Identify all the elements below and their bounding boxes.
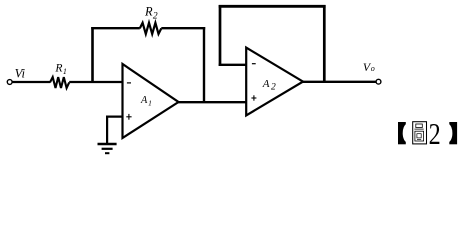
resistor R2	[140, 23, 162, 34]
op-amp A2	[246, 48, 303, 116]
caption left black lenticular bracket	[398, 122, 412, 144]
svg-text:Vi: Vi	[15, 66, 26, 80]
svg-text:R: R	[144, 4, 153, 18]
svg-text:1: 1	[148, 99, 152, 108]
svg-text:2: 2	[271, 82, 276, 92]
A2 minus marker	[252, 63, 256, 65]
wire input to R1	[12, 81, 50, 83]
svg-text:2: 2	[153, 12, 158, 22]
input terminal Vi	[7, 80, 12, 85]
wire R2 top right	[161, 27, 205, 29]
svg-text:A: A	[262, 78, 270, 90]
A1 minus marker	[127, 82, 131, 84]
A1 plus marker	[126, 116, 131, 118]
caption CJK character 圖	[413, 122, 427, 144]
wire A1 plus input	[106, 115, 123, 117]
wire A2 output to terminal	[303, 81, 377, 83]
svg-text:R: R	[54, 61, 62, 74]
resistor R1	[50, 77, 69, 88]
wire A2 minus input	[219, 64, 247, 66]
op-amp A1	[123, 64, 179, 138]
svg-text:2: 2	[429, 117, 441, 151]
wire A1 output to A2 plus input	[178, 101, 247, 103]
A2 plus marker	[251, 97, 256, 99]
svg-text:o: o	[371, 64, 375, 73]
feedback loop left vertical	[219, 5, 222, 66]
wire down to ground	[106, 117, 108, 144]
svg-text:1: 1	[63, 67, 67, 76]
caption right black lenticular bracket	[443, 122, 457, 144]
wire R2 down to A1 output	[203, 27, 205, 102]
feedback loop top wire	[219, 5, 326, 8]
feedback loop right vertical down to output	[323, 5, 326, 82]
node junction vertical to R2	[91, 27, 94, 83]
ground	[98, 143, 117, 145]
wire R1 to op-amp A1 minus input	[69, 81, 122, 83]
wire R2 top left	[91, 27, 140, 29]
svg-text:A: A	[140, 95, 148, 106]
output terminal Vo	[376, 79, 381, 84]
